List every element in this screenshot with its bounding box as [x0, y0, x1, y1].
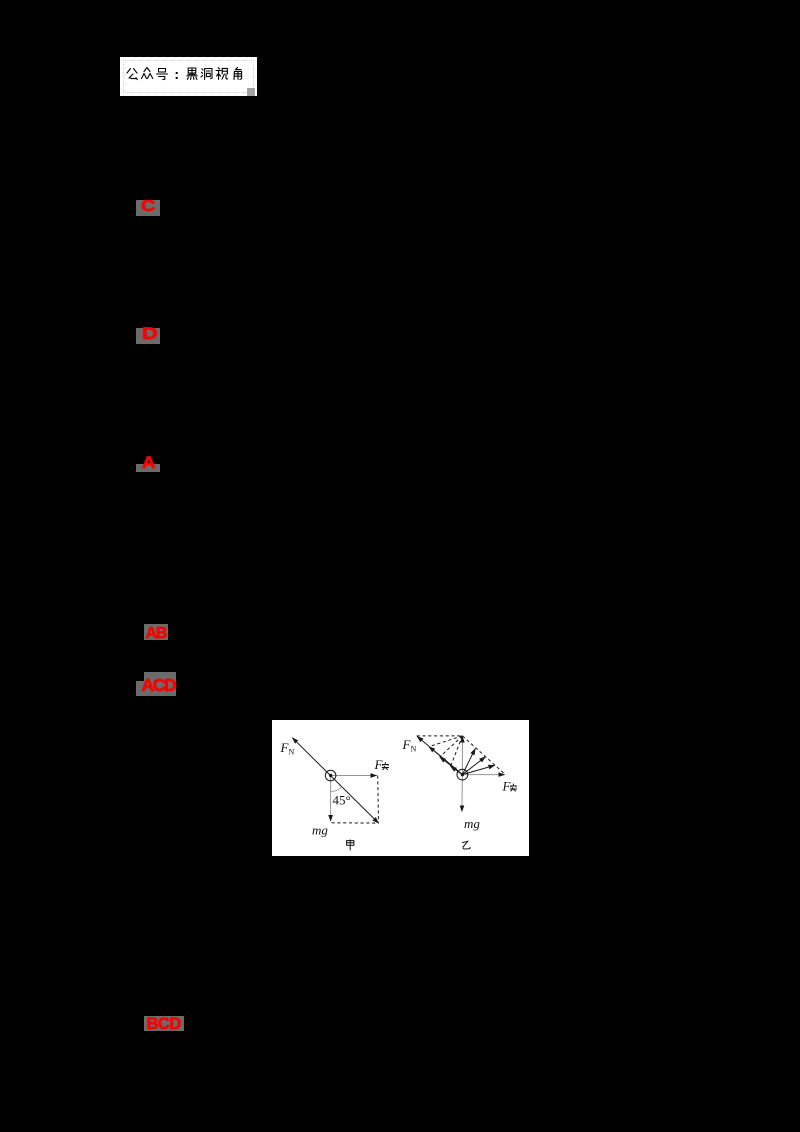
answer A highlight [136, 464, 160, 472]
answer ACD highlight [144, 672, 176, 696]
mg arrow down [330, 776, 332, 822]
mg down arrow [461, 775, 464, 812]
fan arrows [462, 749, 475, 775]
svg-text:mg: mg [312, 823, 328, 838]
dashed rectangle sides [377, 776, 380, 823]
F_N line with arrowheads [417, 736, 462, 774]
labels [280, 737, 512, 838]
answer AB highlight [144, 624, 168, 640]
physics figure [272, 720, 529, 856]
dashed construction [417, 735, 463, 737]
45 degree arc [331, 787, 342, 792]
circle body [325, 770, 336, 781]
vertical up arrow [461, 737, 463, 775]
svg-text:45°: 45° [333, 793, 351, 808]
svg-text:N: N [411, 745, 417, 754]
answer D highlight [136, 328, 160, 344]
answer C highlight [136, 200, 160, 216]
安 subscript left [382, 763, 388, 770]
circle body [457, 769, 468, 780]
svg-text:mg: mg [464, 816, 480, 831]
乙 label [462, 841, 470, 849]
F_安 arrow right [331, 775, 377, 777]
svg-text:N: N [289, 748, 295, 757]
text box "公众号：黑洞视角" [120, 57, 257, 96]
diagonal line with F_N arrow and lower-right arrow [292, 738, 378, 823]
甲 label [347, 840, 354, 850]
安 subscript right [510, 784, 516, 791]
answer BCD highlight [144, 1016, 184, 1032]
